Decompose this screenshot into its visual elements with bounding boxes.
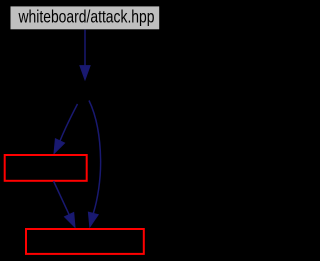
edge typedefs to left red node [54,104,78,154]
node whiteboard/attack.hpp [11,6,160,29]
svg-text:whiteboard/attack.hpp: whiteboard/attack.hpp [18,7,155,27]
left red node (truncated) [5,155,87,181]
include dependency graph [0,0,166,261]
edge left red node to bottom red node [54,181,76,227]
edge attack.hpp to typedefs (vertical) [80,30,90,80]
bottom red node (truncated) [26,229,144,254]
edge typedefs to bottom red node (curved) [88,101,100,228]
